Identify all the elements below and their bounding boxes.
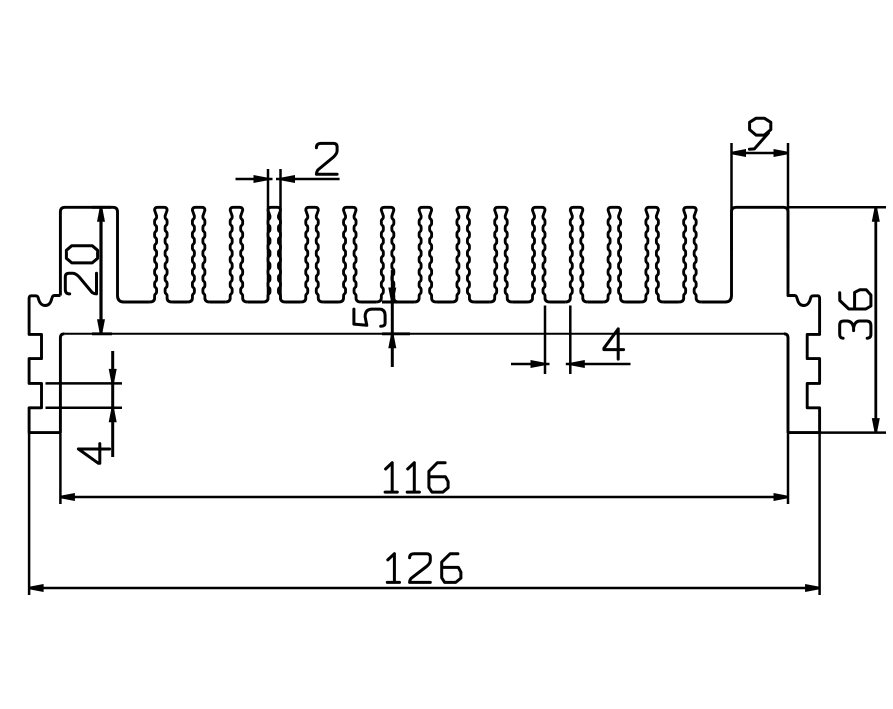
fin 12 [565, 207, 588, 304]
dimension 116: label [385, 463, 397, 492]
dimension 20: label [66, 246, 97, 263]
dimension 126: extension lines [28, 433, 31, 595]
dimension 126: dim line + arrows [29, 587, 820, 590]
dimension 2: label [316, 143, 337, 174]
dimension 4 left: label [78, 444, 109, 464]
fin 5 [301, 207, 324, 304]
fin 13 [603, 207, 626, 304]
fin 11 [528, 207, 551, 304]
fin 2 [187, 207, 210, 304]
dimension 4 left: dim line + arrows [111, 351, 114, 457]
dimension 5: dim line + arrows [391, 270, 394, 367]
fin 3 [225, 207, 248, 304]
dimension 9: extension lines [730, 143, 733, 250]
dimension 5: stubs [382, 301, 410, 304]
dimension 36: label [840, 290, 871, 309]
fin 1 [150, 207, 173, 304]
dimension 4 mid: extension lines [544, 306, 547, 375]
fin 10 [490, 207, 513, 304]
dimension 2: dim line + arrows [236, 178, 273, 181]
heatsink profile outline [60, 207, 819, 432]
fin 4 [263, 207, 286, 304]
dimension 126: label [387, 554, 399, 583]
internal line (web top at 5mm) [64, 333, 784, 335]
dimension 20: dim line + arrows [99, 207, 102, 333]
dimension 9: dim line + arrows [732, 152, 789, 155]
dimension 116: dim line + arrows [60, 496, 788, 499]
fin 6 [339, 207, 362, 304]
dimension 4 mid: label [604, 329, 624, 359]
dimension 4 mid: dim line + arrows [511, 363, 550, 366]
fin 8 [414, 207, 437, 304]
heatsink profile body fill [29, 207, 820, 432]
dimension 5: label [354, 309, 385, 326]
dimension 36: dim line + arrows [874, 207, 877, 432]
dimension 4 left: extension lines [46, 382, 123, 385]
dimension 2: extension lines [267, 169, 270, 300]
fin 15 [679, 207, 702, 304]
dimension 36: extension lines [788, 206, 886, 209]
fin 14 [641, 207, 664, 304]
dimension 9: label [749, 118, 770, 149]
fin 7 [376, 207, 399, 304]
dimension 116: extension lines [59, 434, 62, 504]
fin 9 [452, 207, 475, 304]
